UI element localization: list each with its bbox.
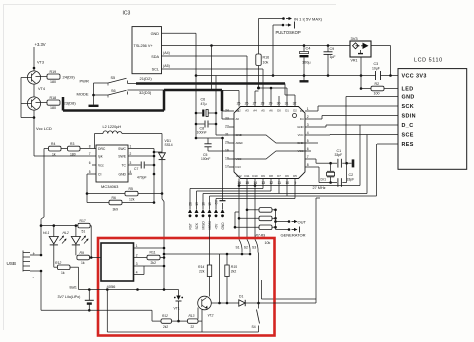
svg-text:GND: GND <box>221 222 225 230</box>
svg-text:TC: TC <box>121 163 126 167</box>
svg-text:2: 2 <box>307 115 309 119</box>
svg-text:10k: 10k <box>265 241 271 245</box>
svg-text:1: 1 <box>130 145 132 149</box>
capacitor C7 470pF <box>132 164 141 166</box>
pin 9 <box>294 179 296 185</box>
svg-text:SDA: SDA <box>151 55 159 59</box>
svg-text:S1: S1 <box>236 245 240 249</box>
wire to MC34063 pin7 <box>34 155 92 157</box>
svg-text:VT1: VT1 <box>174 307 180 311</box>
svg-text:8: 8 <box>307 163 309 167</box>
svg-text:3V3: 3V3 <box>351 36 359 41</box>
wire pin2 to SDIN <box>311 118 322 120</box>
wire to charger section <box>161 194 163 200</box>
svg-text:C6: C6 <box>201 97 206 101</box>
svg-text:27: 27 <box>253 102 257 106</box>
IC MCU ATmega (TQFP32) <box>234 107 305 179</box>
IC MC34063 <box>96 145 128 182</box>
svg-text:SCE: SCE <box>402 133 414 139</box>
wire MCU internal VCC link <box>234 151 305 159</box>
wire fan to pins <box>255 90 259 92</box>
svg-text:3: 3 <box>307 123 309 127</box>
svg-text:SWE: SWE <box>118 154 126 158</box>
svg-text:20: 20 <box>225 141 229 145</box>
svg-text:OUT: OUT <box>298 219 307 224</box>
svg-text:33pF: 33pF <box>347 178 355 182</box>
pin 3 <box>305 126 311 128</box>
ground (MODE common) <box>93 95 95 105</box>
svg-text:R13: R13 <box>189 314 195 318</box>
resistor R17 51 <box>78 223 90 228</box>
wire VT3-VT4 chain <box>33 84 35 97</box>
svg-text:S2: S2 <box>244 245 248 249</box>
svg-text:C7: C7 <box>134 167 138 171</box>
svg-text:R15: R15 <box>231 265 237 269</box>
svg-text:5: 5 <box>307 139 309 143</box>
wire SCE riser <box>366 135 368 194</box>
svg-text:R4: R4 <box>51 142 55 146</box>
svg-text:VT3: VT3 <box>37 61 44 65</box>
svg-text:SDIN: SDIN <box>402 114 416 120</box>
svg-text:1: 1 <box>136 244 138 248</box>
svg-text:2k2: 2k2 <box>231 269 237 273</box>
pin 12 <box>270 179 272 185</box>
pin 4 <box>134 274 141 276</box>
wire RES row <box>377 143 398 145</box>
svg-text:LED: LED <box>402 87 414 93</box>
svg-text:C9: C9 <box>330 47 335 51</box>
svg-text:SWC: SWC <box>118 147 126 151</box>
pin5 stub <box>311 142 318 144</box>
svg-text:12k: 12k <box>129 198 135 202</box>
svg-text:47µ: 47µ <box>201 102 207 106</box>
svg-text:7: 7 <box>307 155 309 159</box>
pin 3 TC <box>128 164 132 166</box>
svg-text:21(D2): 21(D2) <box>140 76 153 81</box>
capacitor C8 100nF <box>196 123 204 125</box>
pin 27 <box>254 101 256 107</box>
svg-text:SCK: SCK <box>402 104 415 110</box>
wire pin14 drop <box>254 184 256 240</box>
svg-text:1k: 1k <box>61 271 65 275</box>
svg-text:TSL256 V+: TSL256 V+ <box>134 44 154 48</box>
svg-text:R12: R12 <box>162 314 168 318</box>
pin 2 <box>305 118 311 120</box>
wire pin1 to SCK <box>311 110 318 112</box>
svg-text:SS14: SS14 <box>165 143 173 147</box>
svg-text:4056: 4056 <box>107 284 117 289</box>
wire +5V rail <box>162 45 351 47</box>
svg-text:VCC: VCC <box>298 149 304 153</box>
pin 28 <box>262 101 264 107</box>
svg-text:A3: A3 <box>245 109 249 113</box>
pin 30 <box>278 101 280 107</box>
resistor R3 180 <box>61 148 68 150</box>
resistor R16 10k <box>258 19 260 55</box>
svg-text:D12: D12 <box>236 174 242 178</box>
svg-text:25: 25 <box>237 102 241 106</box>
IC 4056 charger <box>101 243 134 281</box>
svg-text:MC34063: MC34063 <box>101 184 119 189</box>
svg-text:31: 31 <box>285 102 289 106</box>
pin 20 <box>229 142 235 144</box>
pin 23 <box>229 118 235 120</box>
svg-text:28: 28 <box>261 102 265 106</box>
svg-text:32(D3): 32(D3) <box>139 90 152 95</box>
svg-text:D13: D13 <box>236 165 242 169</box>
svg-text:AREF: AREF <box>236 141 244 145</box>
wire LED row <box>41 225 78 227</box>
svg-text:470pF: 470pF <box>137 176 147 180</box>
svg-text:C2: C2 <box>349 173 354 177</box>
svg-text:GND: GND <box>297 125 303 129</box>
svg-text:23(D8): 23(D8) <box>64 101 77 106</box>
wire GND drop from IC3 <box>195 33 197 138</box>
pin 7 Ipk <box>92 155 96 157</box>
pin 15 <box>246 179 248 185</box>
resistor R13 22 <box>188 319 199 323</box>
pin 4 GND <box>128 173 132 175</box>
svg-text:19: 19 <box>225 149 229 153</box>
pin 19 <box>229 150 235 152</box>
node ISP GND <box>221 209 225 213</box>
svg-text:GENERATOR: GENERATOR <box>281 233 306 238</box>
svg-text:2: 2 <box>136 253 138 257</box>
svg-text:S4: S4 <box>252 325 256 329</box>
svg-text:10µF: 10µF <box>372 67 380 71</box>
svg-text:1k: 1k <box>81 261 85 265</box>
wire pin15 drop <box>246 184 248 240</box>
svg-text:VCC 3V3: VCC 3V3 <box>402 74 427 80</box>
svg-text:PULTOSKOP: PULTOSKOP <box>276 30 301 35</box>
svg-text:4: 4 <box>130 170 132 174</box>
wire charger input <box>91 257 101 259</box>
svg-text:+5V: +5V <box>214 223 218 230</box>
wire generator enclosure <box>315 198 317 299</box>
pin 1 <box>134 247 141 249</box>
svg-text:R14: R14 <box>198 265 204 269</box>
wire charger gnd rail <box>106 290 108 333</box>
svg-text:2: 2 <box>130 152 132 156</box>
svg-text:VCC: VCC <box>298 133 304 137</box>
svg-text:CI: CI <box>98 172 101 176</box>
svg-text:17: 17 <box>225 165 229 169</box>
svg-text:1k: 1k <box>52 152 56 156</box>
svg-text:GND: GND <box>118 172 126 176</box>
svg-text:DRC: DRC <box>98 147 106 151</box>
svg-text:MODE: MODE <box>77 92 89 97</box>
svg-text:D3: D3 <box>300 109 304 113</box>
svg-text:22: 22 <box>191 325 195 329</box>
svg-text:+3.3V: +3.3V <box>35 42 46 47</box>
svg-text:3V7 LiIo(LiPo): 3V7 LiIo(LiPo) <box>58 295 81 299</box>
svg-text:D11: D11 <box>245 174 250 178</box>
svg-text:Vcc LCD: Vcc LCD <box>36 126 52 131</box>
svg-text:A5: A5 <box>261 109 265 113</box>
svg-text:IC3: IC3 <box>123 11 131 17</box>
node OUT <box>275 210 277 230</box>
svg-text:D2: D2 <box>293 109 297 113</box>
crystal Dr1 27MHz with C1 C2 <box>311 158 316 160</box>
pin 3 <box>134 265 141 267</box>
svg-text:GND: GND <box>402 95 415 101</box>
svg-text:A4: A4 <box>253 109 257 113</box>
wire VR1 gnd drop <box>360 57 362 89</box>
svg-text:2k2: 2k2 <box>163 325 168 329</box>
capacitor C4 100u <box>303 44 306 47</box>
pin 22 <box>229 126 235 128</box>
resistor R6 3k9 <box>87 202 109 204</box>
svg-text:RST: RST <box>188 223 192 229</box>
svg-text:24: 24 <box>225 109 229 113</box>
svg-text:R12: R12 <box>55 261 61 265</box>
svg-text:Dr1: Dr1 <box>321 178 327 182</box>
svg-text:D9: D9 <box>261 174 265 178</box>
pin 6 <box>305 150 311 152</box>
pin 8 DRC <box>92 148 96 150</box>
wire switch common <box>164 253 250 255</box>
svg-text:100: 100 <box>374 92 380 96</box>
svg-text:Vcc: Vcc <box>98 163 104 167</box>
svg-text:180: 180 <box>50 80 56 84</box>
wire pin16 drop <box>238 184 240 240</box>
pin 5 <box>305 142 311 144</box>
wire: faint page frame <box>4 5 337 331</box>
pin 5 CI <box>92 173 96 175</box>
svg-text:26: 26 <box>245 102 249 106</box>
resistor R18 180 <box>36 102 48 104</box>
svg-text:D_C: D_C <box>402 123 414 129</box>
svg-text:D6: D6 <box>285 174 289 178</box>
svg-text:10k: 10k <box>263 61 269 65</box>
wire pin21 GND tie <box>215 76 217 136</box>
svg-text:USB: USB <box>7 261 16 266</box>
svg-text:C4: C4 <box>306 47 311 51</box>
svg-text:100nF: 100nF <box>197 131 208 135</box>
node battery-charger highlight (red box) <box>98 238 275 336</box>
resistor R15 2k2 <box>225 265 229 277</box>
svg-text:51: 51 <box>82 229 86 233</box>
svg-text:2k2: 2k2 <box>151 261 157 265</box>
wire AREF link <box>196 137 223 139</box>
svg-text:100nF: 100nF <box>201 157 210 161</box>
svg-text:IN 1 !( 5V MAX): IN 1 !( 5V MAX) <box>294 16 323 21</box>
svg-text:D7: D7 <box>277 174 281 178</box>
svg-text:A1: A1 <box>236 109 240 113</box>
pin 7 <box>305 158 311 160</box>
wire base tie <box>21 77 27 79</box>
svg-text:R3: R3 <box>70 142 74 146</box>
wire +5V column <box>43 149 45 218</box>
svg-text:30: 30 <box>277 102 281 106</box>
svg-text:180: 180 <box>70 152 76 156</box>
svg-text:D8: D8 <box>269 174 273 178</box>
svg-text:R5: R5 <box>129 187 133 191</box>
svg-text:HL2: HL2 <box>63 231 69 235</box>
svg-text:A6: A6 <box>269 109 273 113</box>
pin 24 <box>229 110 235 112</box>
svg-text:R18: R18 <box>50 96 57 100</box>
svg-text:22: 22 <box>225 125 229 129</box>
svg-text:D4: D4 <box>300 117 304 121</box>
pin 1 <box>305 110 311 112</box>
svg-text:3: 3 <box>136 262 138 266</box>
svg-text:(A4): (A4) <box>163 51 170 55</box>
pin 21 <box>229 134 235 136</box>
pin 2 <box>134 257 141 259</box>
resistor R12b 2k2 <box>161 319 172 323</box>
pin 4 <box>305 134 311 136</box>
svg-text:3: 3 <box>130 161 132 165</box>
svg-text:(A5): (A5) <box>163 64 170 68</box>
svg-text:180: 180 <box>50 106 56 110</box>
pin 16 <box>238 179 240 185</box>
svg-text:SCK: SCK <box>195 222 199 229</box>
resistor R2 100 <box>361 88 371 90</box>
svg-text:24(D9): 24(D9) <box>63 75 76 80</box>
svg-text:C3: C3 <box>374 62 379 66</box>
svg-text:R9: R9 <box>80 251 84 255</box>
svg-text:R11: R11 <box>150 250 156 254</box>
svg-text:S5: S5 <box>111 76 116 80</box>
wire AVCC drop <box>210 44 213 47</box>
resistor R19 180 <box>36 76 48 78</box>
svg-text:6: 6 <box>89 161 91 165</box>
resistor R5 12k <box>87 193 125 195</box>
svg-text:1µF: 1µF <box>330 55 336 59</box>
pin 10 <box>286 179 288 185</box>
wire IC3 GND <box>162 32 197 34</box>
svg-text:MISO: MISO <box>201 221 205 230</box>
svg-text:VCC: VCC <box>236 157 242 161</box>
pin 6 Vcc <box>92 164 96 166</box>
pin 26 <box>246 101 248 107</box>
svg-text:4: 4 <box>307 131 309 135</box>
svg-text:SCL: SCL <box>152 68 159 72</box>
svg-text:100µ: 100µ <box>302 61 311 65</box>
pin 17 <box>229 166 235 168</box>
svg-text:8: 8 <box>89 145 91 149</box>
wire 32(D3) bus (thick) <box>164 89 222 92</box>
svg-text:S6: S6 <box>111 89 116 93</box>
wire SWC/SWE tie <box>132 148 154 150</box>
resistor R9b 1k <box>77 255 90 260</box>
resistor R8 10k <box>238 217 241 220</box>
svg-text:S3: S3 <box>252 245 256 249</box>
svg-text:L2 1220µH: L2 1220µH <box>103 125 122 129</box>
resistor R10 1k <box>54 266 58 268</box>
svg-text:3k9: 3k9 <box>113 207 119 211</box>
wire CI feedback <box>87 173 92 175</box>
svg-text:23: 23 <box>225 117 229 121</box>
svg-text:29: 29 <box>269 102 273 106</box>
svg-text:GND: GND <box>236 133 242 137</box>
svg-text:PWR: PWR <box>80 79 89 84</box>
svg-text:5: 5 <box>89 170 91 174</box>
ground under C4 <box>303 76 305 81</box>
svg-text:D5: D5 <box>293 174 297 178</box>
svg-text:Bat1: Bat1 <box>70 285 77 289</box>
resistor R14 22k <box>209 216 211 265</box>
svg-text:4: 4 <box>136 270 138 274</box>
svg-text:LCD 5110: LCD 5110 <box>414 57 443 63</box>
pin 8 <box>305 166 311 168</box>
svg-text:RES: RES <box>402 142 414 148</box>
resistor R4 1k <box>44 148 49 150</box>
pin 13 <box>262 179 264 185</box>
IC IC3 TSL256 <box>132 27 162 74</box>
wire VR1 out <box>371 45 391 47</box>
svg-text:VR1: VR1 <box>351 58 358 62</box>
pin 11 <box>278 179 280 185</box>
svg-text:32: 32 <box>293 102 297 106</box>
wire GND rail <box>196 75 376 77</box>
wire GND row <box>346 96 398 98</box>
svg-text:VT4: VT4 <box>38 87 45 91</box>
svg-text:21: 21 <box>225 133 229 137</box>
pin 31 <box>286 101 288 107</box>
capacitor C9 1uF <box>327 46 329 52</box>
svg-text:VT2: VT2 <box>208 314 214 318</box>
resistor R7 10k <box>246 209 249 212</box>
svg-text:1: 1 <box>307 107 309 111</box>
pin 1 SWC <box>128 148 132 150</box>
svg-text:GND: GND <box>151 32 160 36</box>
svg-text:22k: 22k <box>199 269 205 273</box>
wire D_C riser <box>359 125 361 186</box>
wire RES riser <box>376 144 378 196</box>
svg-text:D1: D1 <box>285 109 289 113</box>
transistor VT1 <box>178 290 180 296</box>
svg-text:27 MHz: 27 MHz <box>313 186 326 190</box>
wire pin3 to D_C <box>311 126 326 128</box>
transistor VT2 <box>198 296 212 310</box>
pin 29 <box>270 101 272 107</box>
svg-text:7: 7 <box>89 152 91 156</box>
svg-text:33pF: 33pF <box>335 153 343 157</box>
svg-text:D1: D1 <box>239 294 243 298</box>
pin 14 <box>254 179 256 185</box>
svg-text:R17: R17 <box>80 219 86 223</box>
svg-text:18: 18 <box>225 157 229 161</box>
wire +3.3V feed <box>33 47 35 71</box>
node PULTOSKOP <box>273 24 283 26</box>
pin 2 SWE <box>128 155 132 157</box>
pin 32 <box>294 101 296 107</box>
ground (ISP) <box>220 200 226 202</box>
wire pin4 to SCE <box>311 134 330 136</box>
svg-text:Ipk: Ipk <box>98 154 103 158</box>
node generator probe <box>276 229 290 231</box>
svg-text:D10: D10 <box>252 174 258 178</box>
resistor R9 10k <box>234 226 237 229</box>
svg-text:R19: R19 <box>50 70 57 74</box>
svg-text:R6: R6 <box>112 196 116 200</box>
svg-text:6: 6 <box>307 147 309 151</box>
wire battery minus rail <box>40 271 42 310</box>
pin 18 <box>229 158 235 160</box>
resistor R11 2k2 <box>140 257 147 259</box>
capacitor C5 100nF <box>207 138 209 144</box>
svg-text:HL1: HL1 <box>43 231 49 235</box>
svg-text:D0: D0 <box>277 109 281 113</box>
wire MCU internal GND link <box>234 135 305 143</box>
svg-text:R16: R16 <box>263 56 270 60</box>
svg-text:GND: GND <box>297 141 303 145</box>
wire ISP feeds <box>262 184 264 189</box>
node IN 1 <box>259 18 284 20</box>
svg-text:R2: R2 <box>375 82 380 86</box>
